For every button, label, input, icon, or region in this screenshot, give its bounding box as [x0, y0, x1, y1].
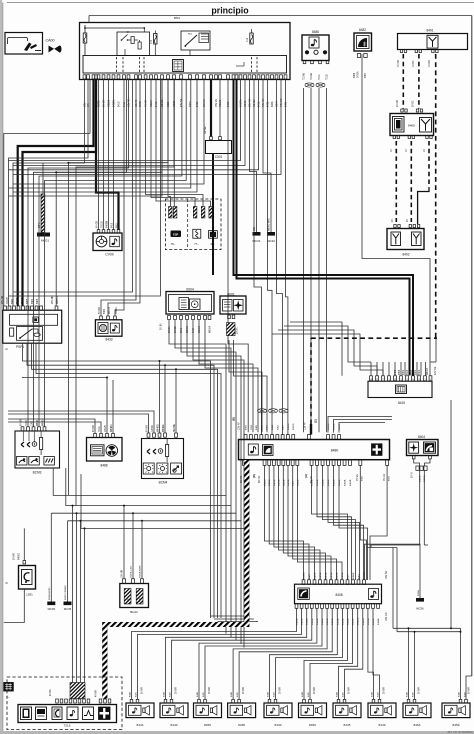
component 4001: [220, 293, 246, 336]
labels above BCM3: [21, 418, 45, 426]
svg-text:8417M: 8417M: [240, 100, 243, 107]
svg-text:8421A: 8421A: [325, 572, 328, 579]
svg-text:8454B: 8454B: [350, 479, 352, 486]
wires into BCM4: [8, 360, 177, 433]
wire staircase BSI to 8480: [254, 79, 288, 435]
component 8408 amplifier: [295, 580, 382, 609]
svg-text:2V BC: 2V BC: [413, 100, 415, 107]
svg-text:8488: 8488: [354, 72, 356, 78]
wires into 8433: [101, 79, 140, 316]
svg-text:8415: 8415: [407, 369, 409, 375]
labels below 8480: [240, 474, 391, 486]
left wire to PSF1 from border: [4, 79, 90, 306]
svg-text:F14: F14: [150, 39, 153, 44]
labels above 8402: [392, 219, 409, 222]
svg-text:8480B: 8480B: [353, 572, 355, 579]
svg-text:8430: 8430: [275, 723, 282, 727]
component 1031: [4, 528, 36, 622]
svg-text:8050D: 8050D: [293, 423, 295, 430]
svg-text:(D): (D): [252, 474, 256, 478]
svg-text:MC35: MC35: [64, 607, 72, 611]
svg-text:M3515 /M8480: M3515 /M8480: [65, 585, 67, 600]
wires 8486 down to 8480: [304, 88, 327, 432]
svg-text:8435A: 8435A: [367, 618, 370, 625]
svg-text:36V NR: 36V NR: [249, 98, 252, 107]
coax dashed 8406 to 8402 c with jog: [418, 141, 429, 224]
fuse box PSF1: [3, 306, 62, 349]
labels above 8415: [395, 366, 437, 375]
svg-text:78--: 78--: [171, 242, 176, 246]
svg-text:8488: 8488: [100, 464, 107, 468]
svg-text:8425B: 8425B: [315, 572, 317, 579]
labels above BCM4: [147, 423, 177, 432]
diagnostic connector icon: [4, 683, 14, 700]
svg-text:8480G: 8480G: [19, 553, 21, 560]
svg-text:MBHS7: MBHS7: [57, 295, 59, 304]
BSI1 pin wire labels: [84, 98, 288, 107]
labels under 8491: [398, 60, 431, 67]
svg-text:C001: C001: [215, 155, 223, 159]
svg-text:2V NR: 2V NR: [349, 687, 351, 694]
svg-text:8459A: 8459A: [344, 479, 347, 486]
svg-text:8V NR: 8V NR: [258, 476, 261, 483]
labels under 0004: [161, 323, 212, 333]
svg-text:8450: 8450: [309, 723, 316, 727]
labels under 8406: [391, 149, 426, 152]
wires up right of 8480: [328, 417, 392, 433]
svg-text:8454A: 8454A: [347, 618, 350, 625]
wires into 8488: [8, 378, 113, 434]
component 8480 radio head unit: [239, 435, 390, 466]
svg-text:8411: 8411: [123, 101, 126, 107]
component 8486: [302, 30, 329, 64]
svg-text:BCM3: BCM3: [33, 471, 42, 475]
svg-text:2V JN: 2V JN: [161, 323, 163, 330]
speaker 8430: [264, 699, 292, 726]
svg-text:M3515: M3515: [109, 306, 111, 314]
svg-text:1V: 1V: [424, 149, 426, 152]
svg-text:12V NF: 12V NF: [304, 421, 307, 430]
extra left elbow wires from BSI: [9, 79, 249, 432]
svg-text:8050: 8050: [167, 101, 170, 107]
labels under 8486: [303, 73, 329, 80]
svg-text:M84DA: M84DA: [357, 617, 360, 625]
svg-text:40V GR: 40V GR: [280, 98, 283, 107]
thick wire below C001: [212, 154, 214, 276]
svg-text:8848A: 8848A: [115, 307, 118, 314]
svg-text:BSI1: BSI1: [174, 16, 181, 20]
svg-text:40V NR: 40V NR: [262, 98, 265, 107]
twisted pair symbol under 8486: [305, 83, 325, 87]
wires into BH12: [124, 506, 142, 579]
svg-text:2V NR: 2V NR: [209, 687, 211, 694]
labels above BH12: [122, 565, 142, 578]
coax dashed 8406 to 8402 a: [395, 141, 397, 222]
component 8404: [407, 435, 439, 459]
ground strip MC01: [37, 163, 50, 243]
svg-text:8415: 8415: [258, 101, 261, 107]
svg-text:2V: 2V: [392, 219, 394, 222]
svg-text:8445: 8445: [344, 723, 351, 727]
speaker 8455: [194, 699, 222, 726]
component CV00: [93, 230, 122, 257]
svg-text:8491: 8491: [285, 101, 288, 107]
svg-text:8410A: 8410A: [296, 618, 299, 625]
svg-text:8450A: 8450A: [326, 618, 329, 625]
svg-text:8404: 8404: [418, 435, 425, 439]
wire from 8482 down: [362, 54, 430, 376]
svg-text:M5*A: M5*A: [38, 222, 41, 228]
wires to 8454 and 8459: [393, 400, 472, 699]
svg-text:8427A: 8427A: [287, 479, 290, 486]
svg-text:T21AD: T21AD: [310, 73, 313, 80]
speaker 8450: [299, 699, 327, 726]
svg-text:8411: 8411: [261, 425, 263, 430]
svg-text:M8450: M8450: [161, 99, 164, 107]
svg-text:1V OR: 1V OR: [398, 60, 400, 67]
horizontal bus wires below PSF1: [23, 344, 222, 619]
svg-text:7V GR: 7V GR: [383, 474, 386, 481]
labels above speaker 8435: [231, 687, 245, 697]
component 8488: [87, 433, 123, 467]
svg-text:10V NR: 10V NR: [128, 98, 131, 107]
svg-text:8440A: 8440A: [306, 618, 309, 625]
svg-text:16V GR: 16V GR: [385, 612, 388, 621]
svg-text:8482: 8482: [359, 28, 366, 32]
tails of long mid verticals: [211, 616, 259, 622]
labels below 8408: [296, 612, 389, 625]
svg-text:8500: 8500: [389, 475, 391, 481]
svg-text:8457: 8457: [359, 573, 361, 579]
svg-text:3W NR: 3W NR: [205, 126, 207, 134]
speaker 8444: [126, 699, 154, 726]
svg-text:7V VE: 7V VE: [356, 474, 359, 481]
connector C001: [205, 79, 232, 159]
coax dashed 8491 to 8406 right: [418, 54, 420, 109]
svg-text:2V NR: 2V NR: [314, 687, 316, 694]
svg-text:M0004: M0004: [210, 325, 212, 333]
svg-text:T21D: T21D: [26, 420, 28, 426]
dashed box around 7215: [7, 677, 122, 730]
svg-text:12V NF: 12V NF: [238, 421, 241, 430]
svg-text:T21A: T21A: [98, 426, 101, 432]
svg-text:8402: 8402: [402, 253, 409, 257]
svg-text:2565A /8408: 2565A /8408: [139, 565, 142, 578]
svg-text:8425A: 8425A: [319, 572, 322, 579]
twisted pair symbols above 8480: [257, 409, 288, 413]
labels above 8408: [304, 570, 389, 579]
svg-text:8413: 8413: [155, 101, 158, 107]
svg-text:BH12: BH12: [130, 610, 138, 614]
svg-text:8410: 8410: [267, 424, 269, 430]
ground MC32: [263, 79, 275, 243]
svg-text:1260: 1260: [32, 420, 34, 426]
svg-text:8408: 8408: [335, 593, 342, 597]
svg-text:8480: 8480: [331, 449, 339, 453]
svg-text:8421A: 8421A: [278, 479, 281, 486]
svg-text:6V GR: 6V GR: [103, 100, 106, 107]
svg-text:2V NR: 2V NR: [176, 687, 178, 694]
labels above 8480: [232, 417, 342, 430]
svg-text:8050G: 8050G: [288, 423, 290, 430]
svg-text:2V NR: 2V NR: [14, 553, 16, 560]
svg-text:8440: 8440: [171, 723, 178, 727]
fanout wires 0004 to lower right: [169, 320, 267, 648]
labels above speaker 8449: [372, 687, 386, 697]
svg-text:T21AB: T21AB: [303, 73, 306, 80]
svg-text:T21D: T21D: [327, 74, 329, 80]
labels above PSF1: [2, 295, 59, 304]
coax dashed 8491 to 8406 left: [402, 54, 404, 109]
labels above speaker 8450: [302, 687, 316, 697]
svg-text:8491: 8491: [426, 28, 433, 32]
svg-text:12V BE: 12V BE: [434, 366, 437, 375]
svg-text:BMS6: BMS6: [98, 100, 101, 107]
ground MC36: [47, 513, 55, 611]
dashed option box ESP/77/44: [165, 199, 221, 250]
component BCM4: [142, 433, 184, 485]
svg-text:8406: 8406: [408, 124, 415, 128]
svg-text:76V VE: 76V VE: [215, 98, 218, 107]
labels above speaker 8454: [407, 687, 421, 697]
svg-text:8415: 8415: [398, 401, 405, 405]
svg-text:M8415: M8415: [427, 367, 429, 375]
svg-text:8486: 8486: [312, 30, 319, 34]
svg-text:8456: 8456: [362, 475, 364, 481]
svg-text:8460: 8460: [196, 101, 199, 107]
mid page bus wires: [51, 468, 244, 528]
wires below 8404 to connector: [371, 459, 430, 548]
svg-text:4V NR: 4V NR: [145, 100, 148, 107]
svg-text:GR: GR: [87, 103, 90, 107]
svg-text:8417: 8417: [283, 424, 285, 430]
labels above speaker 8445: [337, 687, 351, 697]
svg-text:8485: 8485: [227, 101, 230, 107]
speaker 8454: [403, 699, 431, 726]
component CA00 (steering column remote): [5, 33, 62, 55]
svg-text:8405: 8405: [267, 101, 270, 107]
svg-text:MC32: MC32: [267, 239, 275, 243]
speaker 8440: [160, 699, 188, 726]
svg-text:8410: 8410: [118, 101, 121, 107]
svg-text:MC56: MC56: [416, 607, 424, 611]
svg-text:2V OR: 2V OR: [397, 100, 399, 107]
right pin left-bend wires: [9, 79, 282, 175]
component 8415: [368, 376, 432, 405]
svg-text:2V NR: 2V NR: [243, 687, 245, 694]
labels above 8433: [99, 306, 118, 314]
svg-text:1V: 1V: [391, 149, 393, 152]
svg-text:2000A: 2000A: [168, 326, 171, 333]
svg-text:4V BA: 4V BA: [49, 689, 52, 696]
svg-text:(A): (A): [304, 474, 308, 478]
component 8491: [398, 28, 468, 52]
svg-text:8430A: 8430A: [311, 479, 314, 486]
component 0004: [166, 288, 214, 320]
wire fan amplifier to speakers: [132, 608, 380, 699]
svg-text:16V NR: 16V NR: [385, 570, 388, 579]
svg-text:4V NR: 4V NR: [96, 690, 98, 697]
svg-text:8420: 8420: [309, 573, 311, 579]
wires into CV00: [99, 79, 114, 230]
nested corner wires left of 8415: [272, 322, 383, 376]
svg-text:2V NR: 2V NR: [142, 687, 144, 694]
component 8433: [95, 316, 122, 342]
thick feed wires to PSF1: [18, 79, 96, 306]
wires into 7215: [72, 505, 86, 683]
label under 8482: [354, 71, 367, 78]
svg-text:9690: 9690: [411, 369, 413, 375]
svg-text:2V NR: 2V NR: [384, 687, 386, 694]
svg-text:8485: 8485: [256, 424, 258, 430]
svg-text:MC36: MC36: [48, 607, 56, 611]
svg-text:2V NR: 2V NR: [240, 476, 243, 483]
labels above 8488: [93, 424, 113, 432]
speaker 8445: [333, 699, 361, 726]
svg-text:8486: 8486: [271, 101, 274, 107]
svg-text:8449: 8449: [379, 723, 386, 727]
component 8402: [387, 225, 424, 257]
svg-text:8454: 8454: [414, 723, 421, 727]
svg-text:8435: 8435: [238, 723, 245, 727]
svg-text:C8123: C8123: [219, 99, 222, 107]
wires right feed over 8408: [367, 548, 398, 632]
svg-text:8450A: 8450A: [333, 479, 336, 486]
svg-text:8413: 8413: [277, 424, 279, 430]
svg-text:8445A: 8445A: [316, 618, 319, 625]
svg-text:6V NR: 6V NR: [21, 419, 23, 426]
svg-text:(C): (C): [314, 419, 318, 423]
svg-text:M844: M844: [276, 100, 279, 107]
svg-text:3V BA: 3V BA: [357, 71, 360, 78]
speaker 8449: [368, 699, 396, 726]
svg-text:8050: 8050: [246, 424, 248, 430]
labels above speaker 8459: [459, 687, 471, 697]
svg-text:1V: 1V: [406, 149, 408, 152]
svg-text:2V NR: 2V NR: [419, 687, 421, 694]
svg-text:8455: 8455: [204, 723, 211, 727]
svg-text:2V NR: 2V NR: [280, 687, 282, 694]
svg-text:2000C: 2000C: [237, 327, 239, 334]
coax dashed 8491 pin3 long run: [435, 54, 437, 338]
svg-text:T21C: T21C: [319, 74, 321, 80]
svg-text:2--: 2--: [6, 695, 9, 699]
component BH12: [120, 579, 149, 614]
svg-text:8433: 8433: [105, 338, 112, 342]
thick wire pair BSI to 8415: [234, 79, 414, 376]
svg-text:J5V TR IS 05W05A: J5V TR IS 05W05A: [447, 730, 473, 734]
svg-text:F13: F13: [246, 37, 249, 42]
svg-text:BCM4: BCM4: [159, 481, 168, 485]
labels above 8406: [397, 100, 415, 107]
svg-text:2V VI: 2V VI: [412, 472, 414, 478]
dashed 12V NF line to 8480: [311, 338, 437, 434]
svg-text:8444A: 8444A: [377, 618, 380, 625]
ECU BSI1 box with internal fuses and relay: [80, 16, 472, 80]
svg-text:MC01: MC01: [41, 239, 49, 243]
component 8482: [354, 28, 372, 58]
svg-text:M56A: M56A: [417, 590, 420, 596]
svg-text:2V NR: 2V NR: [469, 687, 471, 694]
svg-text:8440A: 8440A: [322, 479, 325, 486]
labels above CV00: [97, 221, 119, 228]
svg-text:8427: 8427: [348, 573, 350, 579]
svg-text:C8124: C8124: [150, 99, 153, 107]
svg-text:8444: 8444: [137, 723, 144, 727]
svg-text:C8125: C8125: [108, 99, 111, 107]
ground MC35: [64, 521, 72, 611]
component 7215 connector strip: [18, 683, 117, 728]
svg-text:CA00: CA00: [46, 39, 55, 43]
labels above speaker 8440: [164, 687, 178, 697]
svg-text:3W NR: 3W NR: [203, 99, 206, 107]
svg-text:principio: principio: [211, 6, 249, 16]
svg-text:M36A /M080: M36A /M080: [48, 587, 51, 600]
svg-text:8480A: 8480A: [268, 479, 271, 486]
svg-text:7215: 7215: [64, 724, 71, 728]
svg-text:2V: 2V: [407, 219, 409, 222]
svg-text:8480: 8480: [104, 308, 106, 314]
svg-text:BM34: BM34: [139, 100, 142, 107]
svg-text:19V NR: 19V NR: [122, 570, 124, 578]
svg-text:1V BC: 1V BC: [413, 60, 415, 67]
svg-text:8485M: 8485M: [113, 100, 116, 107]
svg-text:PSF1: PSF1: [16, 345, 24, 349]
svg-text:CV00: CV00: [105, 253, 114, 257]
svg-text:77--: 77--: [194, 242, 199, 246]
svg-text:2565B +302: 2565B +302: [131, 565, 133, 578]
speaker 8435: [228, 699, 256, 726]
ground MC56: [365, 544, 425, 610]
svg-text:ESP: ESP: [173, 233, 178, 237]
thick feed wire to CV00: [96, 79, 119, 230]
labels above speaker 8455: [197, 687, 211, 697]
svg-text:M8060 /M80: M8060 /M80: [269, 218, 271, 231]
svg-text:M841: M841: [272, 424, 274, 430]
labels above speaker 8430: [268, 687, 282, 697]
svg-text:8848B: 8848B: [304, 572, 306, 579]
svg-text:1V NO: 1V NO: [429, 60, 431, 67]
labels above speaker 8444: [130, 687, 144, 697]
svg-text:8487: 8487: [365, 72, 367, 78]
svg-text:C812: C812: [251, 424, 253, 430]
svg-text:8459: 8459: [453, 723, 460, 727]
BSI1 connector pin row: [83, 75, 287, 79]
svg-text:8451A: 8451A: [336, 618, 339, 625]
component BCM3: [15, 427, 60, 475]
svg-text:26V MD: 26V MD: [52, 295, 54, 304]
svg-text:(B): (B): [232, 417, 236, 421]
svg-text:C8H30: C8H30: [253, 99, 256, 107]
zebra striped harness: [105, 460, 247, 699]
wires into ESP box: [146, 79, 211, 207]
svg-text:M8440: M8440: [135, 99, 138, 107]
svg-text:8426B: 8426B: [342, 572, 344, 579]
speaker 8459: [442, 699, 470, 726]
component 8406: [390, 109, 434, 139]
svg-text:8421B: 8421B: [331, 572, 333, 579]
wires 8480 bottom to amplifier 8408: [265, 465, 388, 580]
ground MC31: [250, 79, 261, 243]
svg-text:8426A: 8426A: [336, 572, 339, 579]
left bundle wires to PSF1 and BCM3: [9, 79, 187, 506]
svg-text:1031: 1031: [26, 593, 33, 597]
svg-text:M84D: M84D: [37, 420, 39, 426]
svg-text:M84D: M84D: [244, 100, 247, 107]
stub wires above 8415: [371, 362, 426, 376]
coax dashed 8406 to 8402 b: [410, 141, 412, 222]
